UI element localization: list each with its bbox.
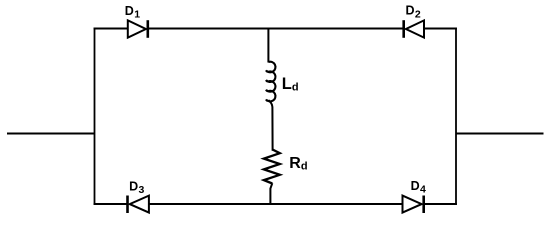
wire top middle segment <box>148 28 404 30</box>
wire top left segment <box>94 28 128 30</box>
svg-text:D3: D3 <box>129 180 144 197</box>
resistor Rd <box>264 150 280 184</box>
diode D2 <box>404 20 424 38</box>
svg-text:D1: D1 <box>125 4 140 21</box>
svg-text:D2: D2 <box>406 4 421 21</box>
diode D3 <box>128 196 149 214</box>
wire middle branch bottom <box>270 183 272 205</box>
svg-text:Rd: Rd <box>289 155 307 173</box>
wire top right segment <box>424 28 457 30</box>
svg-text:Ld: Ld <box>282 75 299 94</box>
wire bottom right segment <box>424 203 457 205</box>
wire bottom left segment <box>94 203 128 205</box>
wire bottom middle segment <box>149 203 403 205</box>
svg-text:D4: D4 <box>411 179 426 196</box>
diode D1 <box>128 20 148 38</box>
wire right terminal <box>456 133 544 135</box>
wire left terminal <box>7 133 95 135</box>
diode D4 <box>403 196 424 214</box>
wire right vertical side <box>455 28 457 206</box>
inductor Ld <box>266 62 275 102</box>
wire middle branch top <box>267 28 269 63</box>
wire left vertical side <box>94 28 96 206</box>
wire middle branch between Ld and Rd <box>268 100 272 151</box>
